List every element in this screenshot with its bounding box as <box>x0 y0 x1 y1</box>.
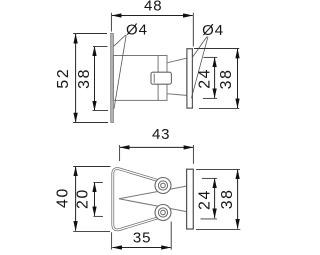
dimension 24 bottom <box>214 179 216 219</box>
svg-text:40: 40 <box>55 187 72 208</box>
dimension 20 <box>94 183 96 216</box>
leader left short <box>114 35 126 46</box>
cone neck <box>167 58 187 95</box>
svg-text:43: 43 <box>152 126 171 143</box>
svg-text:52: 52 <box>55 68 72 89</box>
leader left long <box>114 35 126 109</box>
svg-text:38: 38 <box>219 188 236 209</box>
leader right long <box>191 37 208 99</box>
dimension 40 <box>75 167 77 231</box>
svg-text:48: 48 <box>144 0 163 15</box>
svg-text:24: 24 <box>197 189 214 210</box>
latch clip <box>151 72 171 84</box>
svg-text:38: 38 <box>76 68 93 89</box>
dimension 43 <box>120 146 193 148</box>
leader right short <box>193 37 207 57</box>
ceiling flange (side view) <box>187 49 193 108</box>
dimension 52 <box>75 34 77 122</box>
body housing <box>113 56 167 101</box>
spring wedge tongue bottom edge <box>119 199 187 212</box>
dimension 48 <box>112 15 193 17</box>
body inner band line <box>157 56 159 101</box>
dimension 38 left <box>94 46 96 110</box>
spring wedge tongue top edge <box>119 186 187 199</box>
svg-text:20: 20 <box>74 188 91 209</box>
wire loop outer+inner (double stroke) <box>113 169 163 230</box>
svg-text:Ø4: Ø4 <box>202 22 224 39</box>
top eyelet <box>155 178 171 194</box>
latch clip inner edge <box>153 74 155 83</box>
ceiling plate (bottom view) <box>187 169 194 229</box>
dimension 38 bottom <box>237 170 239 229</box>
dimension 35 <box>112 247 170 249</box>
dimension 38 upper right <box>237 49 239 108</box>
svg-text:Ø4: Ø4 <box>126 22 148 39</box>
dimension 24 upper <box>214 58 216 98</box>
svg-text:35: 35 <box>133 229 152 246</box>
svg-text:38: 38 <box>218 68 235 89</box>
bottom eyelet <box>155 205 171 221</box>
svg-text:24: 24 <box>197 68 214 89</box>
wall plate (side view, grey bar) <box>111 34 114 123</box>
